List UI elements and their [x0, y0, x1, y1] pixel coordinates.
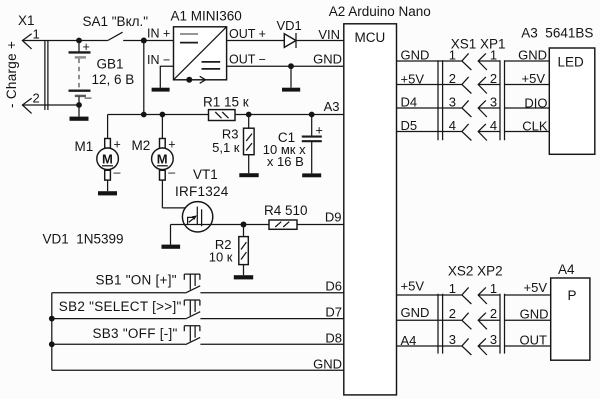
svg-text:SB2 "SELECT [>>]": SB2 "SELECT [>>]"	[59, 299, 182, 314]
terminal top	[105, 139, 111, 149]
ground C1	[302, 173, 321, 177]
dc-dc converter A1 MINI360	[147, 9, 266, 92]
substrate arrow	[189, 219, 193, 222]
wire pin2 to battery	[22, 104, 79, 106]
plate short	[75, 56, 86, 58]
dc mark input black line	[180, 42, 198, 44]
node GND junction	[288, 63, 294, 69]
node R1 out junction	[246, 112, 252, 118]
capacitor C1	[263, 115, 323, 178]
wire bus to SB1	[52, 292, 186, 294]
node bottom edge dot	[186, 77, 192, 83]
node rail junction 2	[160, 112, 166, 118]
resistor R4	[244, 203, 344, 229]
svg-text:D4: D4	[401, 95, 418, 110]
body	[551, 278, 590, 360]
svg-text:CLK: CLK	[522, 119, 548, 134]
svg-text:2: 2	[490, 306, 497, 321]
svg-text:10 к: 10 к	[209, 250, 233, 265]
svg-text:1: 1	[490, 48, 497, 63]
node bus junction SB3	[49, 341, 55, 347]
led display A3 5641BS	[518, 26, 595, 155]
svg-text:4: 4	[490, 118, 497, 133]
svg-text:OUT: OUT	[520, 333, 548, 348]
diagonal divider	[174, 27, 227, 80]
terminal top	[160, 139, 166, 149]
svg-text:R1 15 к: R1 15 к	[203, 95, 249, 110]
svg-text:OUT +: OUT +	[229, 27, 266, 41]
svg-text:VD1: VD1	[277, 18, 302, 33]
wire to VT1 drain	[161, 180, 163, 208]
switch blade	[108, 32, 123, 40]
ground R2	[234, 275, 253, 279]
wire GND row 2	[397, 319, 462, 321]
connector XP2 housing	[500, 294, 505, 354]
dc mark input gray line	[180, 33, 198, 35]
pin XS1-1 socket	[462, 53, 472, 70]
plate long 2	[69, 89, 91, 91]
wire +5V row 2	[397, 84, 462, 86]
pin XP2-2 plug	[478, 313, 500, 330]
wire GND row 1	[397, 60, 462, 62]
diode VD1	[227, 18, 344, 48]
wire SB3 to D8	[200, 343, 343, 345]
svg-text:IN +: IN +	[147, 27, 170, 41]
svg-text:1: 1	[449, 48, 456, 63]
svg-text:VD1 1N5399: VD1 1N5399	[43, 232, 124, 247]
svg-text:XS2 XP2: XS2 XP2	[448, 264, 503, 279]
wire drain from M2	[162, 207, 197, 209]
svg-text:M: M	[102, 152, 113, 167]
channel bar right	[201, 209, 203, 226]
node rail junction 1	[141, 112, 147, 118]
connector XP1 housing	[500, 60, 505, 140]
pin XS1-4 socket	[462, 124, 472, 141]
pin XP1-4 plug	[478, 124, 500, 141]
wire IN- stub	[160, 66, 173, 88]
svg-text:5,1 к: 5,1 к	[212, 140, 240, 155]
svg-text:IN −: IN −	[147, 53, 170, 67]
svg-text:GND: GND	[520, 307, 549, 322]
svg-text:A3: A3	[324, 99, 340, 114]
pin XP1-1 plug	[478, 53, 500, 70]
wire OUT+ to anode	[227, 40, 285, 42]
svg-text:GND: GND	[401, 48, 430, 63]
blade	[185, 286, 200, 293]
wire junction to R3	[248, 115, 250, 129]
resistor R1	[203, 95, 249, 121]
actuator cap	[184, 300, 200, 306]
pin XP2-3 plug	[478, 338, 500, 355]
power marks	[246, 134, 252, 151]
wire down to motor rail	[143, 41, 145, 115]
svg-text:D7: D7	[325, 305, 342, 320]
wire pin1 to battery	[22, 40, 79, 42]
wire battery to switch	[79, 40, 108, 42]
dc mark output lines	[202, 62, 221, 69]
connector XS2 housing	[438, 294, 443, 354]
body	[244, 128, 255, 155]
svg-text:х 16 В: х 16 В	[267, 154, 304, 169]
node switch out junction	[141, 38, 147, 44]
svg-text:+: +	[114, 138, 121, 152]
channel bar left	[196, 207, 198, 225]
svg-text:+5V: +5V	[522, 71, 546, 86]
pin XP1-2 plug	[478, 77, 500, 94]
wire row2 to A4	[505, 319, 551, 321]
motor M2	[132, 115, 176, 208]
svg-text:SA1 "Вкл.": SA1 "Вкл."	[83, 14, 149, 29]
switch SA1	[79, 14, 174, 115]
svg-text:SB3 "OFF [-]": SB3 "OFF [-]"	[93, 326, 178, 341]
sensor module A4	[520, 262, 590, 360]
svg-text:12, 6 В: 12, 6 В	[92, 72, 135, 87]
wire cathode to VIN	[296, 40, 344, 42]
wire	[78, 41, 80, 53]
pin 2 arrow	[22, 98, 31, 113]
resistor R2	[209, 225, 253, 280]
ground R3	[239, 173, 258, 177]
wire row2 to LED	[505, 84, 550, 86]
ground	[98, 191, 117, 195]
plate -	[302, 140, 322, 142]
pin 1 arrow	[22, 34, 31, 49]
svg-text:M2: M2	[132, 138, 151, 153]
svg-text:+: +	[316, 124, 323, 138]
wire rail to M1	[107, 115, 109, 139]
wire SB1 to D6	[200, 292, 343, 294]
wire to ground	[107, 180, 109, 191]
svg-text:SB1 "ON [+]": SB1 "ON [+]"	[96, 272, 177, 287]
source wire through	[171, 224, 244, 226]
wire R2 to ground	[243, 265, 245, 276]
svg-text:3: 3	[449, 95, 456, 110]
blade	[185, 337, 200, 344]
connector XS1 housing	[438, 60, 443, 140]
wire junction to plate	[311, 115, 313, 137]
terminal bottom	[105, 170, 111, 180]
svg-text:XS1 XP1: XS1 XP1	[451, 37, 506, 52]
anode triangle	[284, 34, 296, 48]
svg-text:2: 2	[449, 306, 456, 321]
node junction bottom	[76, 102, 82, 108]
motor rail wire	[108, 114, 344, 116]
svg-text:DIO: DIO	[524, 96, 547, 111]
svg-text:–: –	[114, 166, 121, 180]
ground VT1	[162, 245, 181, 249]
body circle	[182, 202, 212, 232]
pin XS2-2 socket	[462, 313, 472, 330]
wire +5V row 1	[397, 294, 462, 296]
wire SB2 to D7	[200, 318, 343, 320]
wire junction to R2	[243, 225, 245, 237]
power marks	[275, 222, 289, 227]
motor M1	[75, 115, 121, 196]
svg-text:+: +	[168, 138, 175, 152]
transistor VT1	[162, 167, 244, 249]
svg-text:3: 3	[490, 95, 497, 110]
body	[344, 24, 397, 395]
motor body	[97, 148, 119, 170]
node C1 junction	[309, 112, 315, 118]
wire	[78, 97, 80, 106]
connector X1	[4, 13, 79, 113]
node bus junction SB2	[49, 316, 55, 322]
svg-text:D8: D8	[325, 331, 342, 346]
wire bus to SB3	[52, 343, 186, 345]
actuator cap	[184, 326, 200, 332]
pin XS1-2 socket	[462, 77, 472, 94]
battery GB1	[69, 38, 135, 121]
svg-text:A1 MINI360: A1 MINI360	[171, 9, 242, 24]
svg-text:D6: D6	[325, 279, 342, 294]
cathode bar	[295, 33, 297, 48]
wire switch out	[123, 40, 173, 42]
svg-text:LED: LED	[558, 55, 585, 70]
svg-text:- Charge +: - Charge +	[4, 41, 19, 108]
wire bus to GND pin	[52, 369, 344, 371]
svg-text:M: M	[157, 152, 168, 167]
svg-text:3: 3	[490, 332, 497, 347]
svg-text:VT1: VT1	[193, 167, 218, 182]
actuator stem	[190, 300, 195, 316]
svg-text:+: +	[83, 40, 90, 54]
plate short 2	[75, 95, 86, 97]
svg-text:MCU: MCU	[355, 30, 386, 45]
svg-text:1: 1	[490, 281, 497, 296]
body	[209, 110, 236, 121]
svg-text:+5V: +5V	[524, 280, 548, 295]
svg-text:D5: D5	[401, 118, 418, 133]
svg-text:IRF1324: IRF1324	[175, 184, 229, 199]
svg-text:2: 2	[490, 71, 497, 86]
svg-text:GND: GND	[313, 52, 342, 67]
adjust arrow	[200, 76, 206, 83]
dashed cell link	[78, 59, 80, 90]
svg-text:1: 1	[33, 27, 40, 42]
pin XS1-3 socket	[462, 100, 472, 117]
svg-text:–: –	[168, 166, 175, 180]
ground OUT-	[282, 88, 300, 92]
button SB1	[52, 272, 344, 293]
plate long +	[69, 51, 91, 53]
terminal bottom	[160, 170, 166, 180]
wire A4 row 3	[397, 345, 462, 347]
X1 housing lines	[45, 40, 48, 110]
wire to ground	[78, 105, 80, 117]
wire junction to R4	[244, 224, 270, 226]
wire R4 to D9	[297, 224, 344, 226]
body	[174, 27, 227, 80]
wire row1 to A4	[505, 294, 551, 296]
svg-text:+5V: +5V	[401, 279, 425, 294]
svg-text:OUT −: OUT −	[229, 53, 266, 67]
svg-text:3: 3	[449, 332, 456, 347]
wire OUT- to GND pin	[227, 65, 344, 67]
svg-text:1: 1	[449, 281, 456, 296]
svg-text:M1: M1	[75, 139, 94, 154]
gate bracket	[188, 217, 195, 224]
svg-text:P: P	[568, 288, 577, 303]
wire D5 row 4	[397, 131, 462, 133]
button SB2	[59, 299, 344, 319]
button common bus wire	[51, 293, 53, 371]
body	[239, 237, 249, 265]
svg-text:GND: GND	[518, 48, 547, 63]
svg-text:D9: D9	[325, 210, 342, 225]
wire row1 to LED	[505, 60, 550, 62]
wire row3 to A4	[505, 345, 551, 347]
blade	[185, 312, 200, 319]
mcu A2 Arduino Nano	[313, 4, 431, 395]
body	[269, 220, 297, 229]
svg-text:R4 510: R4 510	[264, 203, 308, 218]
svg-text:A4: A4	[558, 262, 575, 277]
node gate junction	[241, 222, 247, 228]
wire source to ground	[170, 225, 172, 245]
pin XS2-1 socket	[462, 287, 472, 304]
svg-text:2: 2	[449, 71, 456, 86]
pin XP1-3 plug	[478, 100, 500, 117]
ground IN-	[152, 88, 170, 92]
wire row4 to LED	[505, 131, 550, 133]
svg-text:GND: GND	[313, 356, 342, 371]
svg-text:VIN: VIN	[318, 27, 340, 42]
wire plate to ground	[311, 141, 313, 173]
power marks	[241, 242, 246, 259]
ground	[70, 117, 89, 121]
svg-text:GB1: GB1	[97, 57, 124, 72]
wire rail to M2	[161, 115, 163, 139]
wire junction to ground	[290, 66, 292, 88]
svg-text:4: 4	[449, 118, 456, 133]
wire R3 to ground	[248, 155, 250, 174]
svg-text:2: 2	[33, 91, 40, 106]
pin XS2-3 socket	[462, 338, 472, 355]
pin XP2-1 plug	[478, 287, 500, 304]
wire row3 to LED	[505, 107, 550, 109]
button SB3	[52, 326, 344, 345]
motor body	[152, 148, 174, 170]
svg-text:A3 5641BS: A3 5641BS	[521, 26, 593, 41]
svg-text:GND: GND	[401, 305, 430, 320]
actuator stem	[190, 326, 195, 342]
svg-text:A2 Arduino Nano: A2 Arduino Nano	[329, 4, 431, 19]
plate +	[302, 136, 322, 138]
actuator stem	[190, 274, 195, 290]
resistor R3	[212, 115, 259, 178]
node junction top	[76, 38, 82, 44]
wire bus to SB2	[52, 318, 186, 320]
wire D4 row 3	[397, 107, 462, 109]
power marks	[215, 112, 228, 118]
body	[549, 48, 595, 154]
actuator cap	[184, 274, 200, 280]
svg-text:–: –	[85, 91, 92, 105]
